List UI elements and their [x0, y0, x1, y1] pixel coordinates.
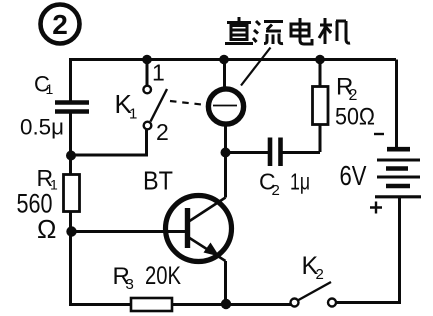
dashed link from K1 arm to motor [170, 101, 206, 105]
svg-text:50Ω: 50Ω [335, 104, 375, 131]
label pointer line for DC-motor caption [241, 48, 271, 86]
figure number 2 [41, 5, 80, 44]
label R3 20K [113, 262, 182, 293]
wire collector lead [224, 152, 227, 198]
node C1 bottom junction [66, 151, 76, 161]
svg-text:20K: 20K [145, 262, 181, 290]
wire left vertical branch [69, 58, 72, 305]
node collector junction [221, 148, 231, 158]
svg-text:0.5μ: 0.5μ [20, 115, 64, 140]
label K1 [115, 89, 138, 123]
wire motor bottom lead [224, 124, 227, 152]
node K1 top junction [142, 55, 152, 65]
svg-text:2: 2 [272, 182, 280, 199]
svg-text:BT: BT [143, 166, 173, 196]
battery plus sign [370, 202, 382, 214]
wire right top vertical to battery [395, 60, 398, 148]
svg-text:1: 1 [46, 81, 54, 97]
battery B 6V [375, 149, 421, 197]
switch K1 [143, 59, 167, 129]
svg-text:2: 2 [52, 9, 68, 40]
motor M (DC motor) [208, 89, 243, 124]
wire collector junction to C2 and R2 bottom [226, 151, 321, 154]
wire emitter lead [224, 261, 227, 305]
svg-text:2: 2 [316, 266, 324, 283]
transistor BT [73, 196, 232, 262]
wire bottom bus [69, 303, 291, 306]
capacitor C2 [270, 138, 281, 167]
resistor R2 [313, 59, 329, 152]
node emitter bottom junction [221, 299, 231, 309]
svg-text:2: 2 [349, 87, 358, 104]
wire battery minus lead down to K2 [335, 198, 400, 303]
svg-text:Ω: Ω [37, 214, 56, 244]
label DC motor caption (hanzi drawn as strokes) [225, 17, 350, 44]
capacitor C1 [55, 103, 89, 112]
svg-text:1: 1 [152, 60, 165, 86]
resistor R1 [64, 175, 80, 212]
battery minus sign [374, 133, 384, 135]
wire K1 pole-2 branch [71, 129, 147, 155]
label C2 1u [259, 169, 310, 200]
node R1 bottom junction [66, 226, 76, 236]
label R1 [37, 165, 59, 193]
svg-text:6V: 6V [340, 160, 367, 191]
label C1 [34, 72, 54, 98]
label K2 [302, 252, 324, 283]
svg-text:1μ: 1μ [290, 169, 310, 195]
node R2 top junction [315, 55, 325, 65]
svg-text:1: 1 [129, 106, 137, 123]
svg-text:2: 2 [156, 119, 169, 145]
resistor R3 [131, 298, 172, 311]
label R2 [336, 74, 358, 105]
node motor top junction [219, 55, 229, 65]
wire motor top lead [223, 59, 226, 88]
svg-text:3: 3 [126, 276, 134, 293]
switch K2 [291, 282, 337, 307]
wire top bus [70, 58, 396, 61]
